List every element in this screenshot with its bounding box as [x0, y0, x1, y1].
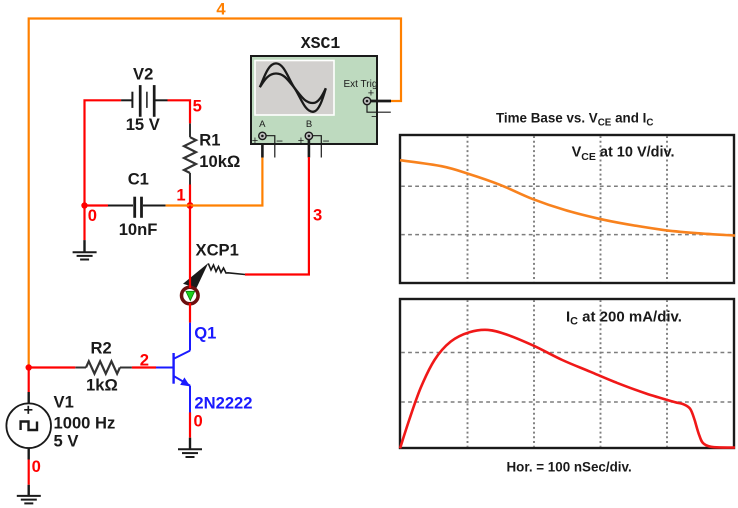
svg-text:−: −: [276, 134, 283, 148]
probe ring: [182, 287, 199, 304]
ground (under node 0): [73, 240, 97, 259]
svg-text:1kΩ: 1kΩ: [86, 375, 118, 394]
scope screen sine waves: [260, 63, 326, 111]
svg-text:R1: R1: [199, 131, 220, 150]
wire probe-to-collector (red): [189, 303, 191, 323]
capacitor C1: [108, 197, 166, 218]
chart 2 gridlines: [401, 300, 733, 447]
transistor Q1: [156, 323, 190, 413]
svg-text:1: 1: [176, 186, 185, 205]
B hook wire: [312, 136, 322, 158]
B connector: [305, 132, 312, 139]
svg-text:+: +: [298, 135, 304, 147]
resistor R1: [184, 123, 196, 184]
wire battery-right to R1 (red, net 5): [168, 100, 191, 123]
wire R2-to-base (red): [132, 366, 156, 368]
chart 1 frame: [400, 135, 734, 283]
wire junction-to-R2 (red): [29, 366, 76, 368]
probe clamp: [183, 263, 208, 288]
wire net 4 (orange): [29, 19, 401, 369]
A hook wire: [265, 136, 275, 158]
probe cable: [208, 263, 245, 274]
svg-text:V2: V2: [133, 65, 153, 84]
resistor R2: [75, 361, 132, 373]
chart 1 gridlines: [401, 136, 733, 282]
node 0 dot (left): [81, 202, 87, 208]
chart 1 curve (orange VCE): [400, 160, 735, 235]
svg-text:15 V: 15 V: [126, 115, 160, 134]
svg-text:XSC1: XSC1: [301, 34, 341, 53]
svg-text:Hor. = 100 nSec/div.: Hor. = 100 nSec/div.: [507, 459, 632, 474]
wire C1-to-node1 (orange): [166, 204, 190, 206]
svg-text:−: −: [322, 134, 329, 148]
svg-text:R2: R2: [91, 339, 112, 358]
chart 2 frame: [400, 299, 734, 448]
wire R1-to-node1 (red): [189, 185, 191, 206]
ext trig hook wire: [367, 105, 391, 113]
svg-text:IC at 200 mA/div.: IC at 200 mA/div.: [566, 309, 682, 328]
node 1 dot: [187, 202, 194, 209]
svg-text:4: 4: [216, 0, 226, 19]
svg-text:0: 0: [32, 457, 41, 476]
A connector: [259, 132, 266, 139]
junction node dot: [26, 364, 32, 370]
svg-text:C1: C1: [128, 170, 149, 189]
svg-text:3: 3: [313, 205, 322, 224]
source V1: [6, 392, 51, 460]
svg-text:10nF: 10nF: [119, 220, 158, 239]
wire node0-to-C1 (red): [85, 204, 109, 206]
wire battery-left red: [85, 100, 122, 240]
ground (emitter): [178, 438, 202, 457]
svg-text:1000 Hz: 1000 Hz: [54, 414, 116, 433]
svg-text:10kΩ: 10kΩ: [199, 152, 240, 171]
wire junction-to-V1 (red): [28, 368, 30, 393]
svg-text:A: A: [259, 119, 266, 130]
battery V2: [121, 85, 167, 117]
wire emitter-to-ground (red): [189, 412, 191, 437]
svg-text:0: 0: [88, 206, 97, 225]
svg-text:0: 0: [194, 411, 203, 430]
B pin stub: [308, 140, 311, 158]
svg-text:V1: V1: [54, 393, 74, 412]
wire node1-to-probe (red): [189, 206, 191, 289]
scope A pin stub: [261, 140, 264, 158]
wire net 3 (red, scope B to probe): [245, 157, 309, 275]
ext trig wire black: [371, 100, 391, 103]
svg-text:XCP1: XCP1: [196, 240, 239, 259]
svg-text:5 V: 5 V: [54, 432, 79, 451]
svg-text:2N2222: 2N2222: [194, 394, 252, 413]
probe arrow: [186, 291, 195, 300]
ext trig connector: [363, 97, 370, 104]
svg-text:+: +: [252, 135, 258, 147]
ground (V1): [17, 485, 41, 504]
wire node1-to-scopeA (orange): [190, 157, 262, 206]
svg-text:Q1: Q1: [194, 324, 216, 343]
svg-text:B: B: [306, 119, 312, 130]
emitter arrow: [180, 377, 190, 386]
svg-text:5: 5: [193, 97, 202, 116]
chart 2 curve (red IC): [400, 330, 735, 449]
wire V1-to-ground (red): [28, 460, 30, 485]
